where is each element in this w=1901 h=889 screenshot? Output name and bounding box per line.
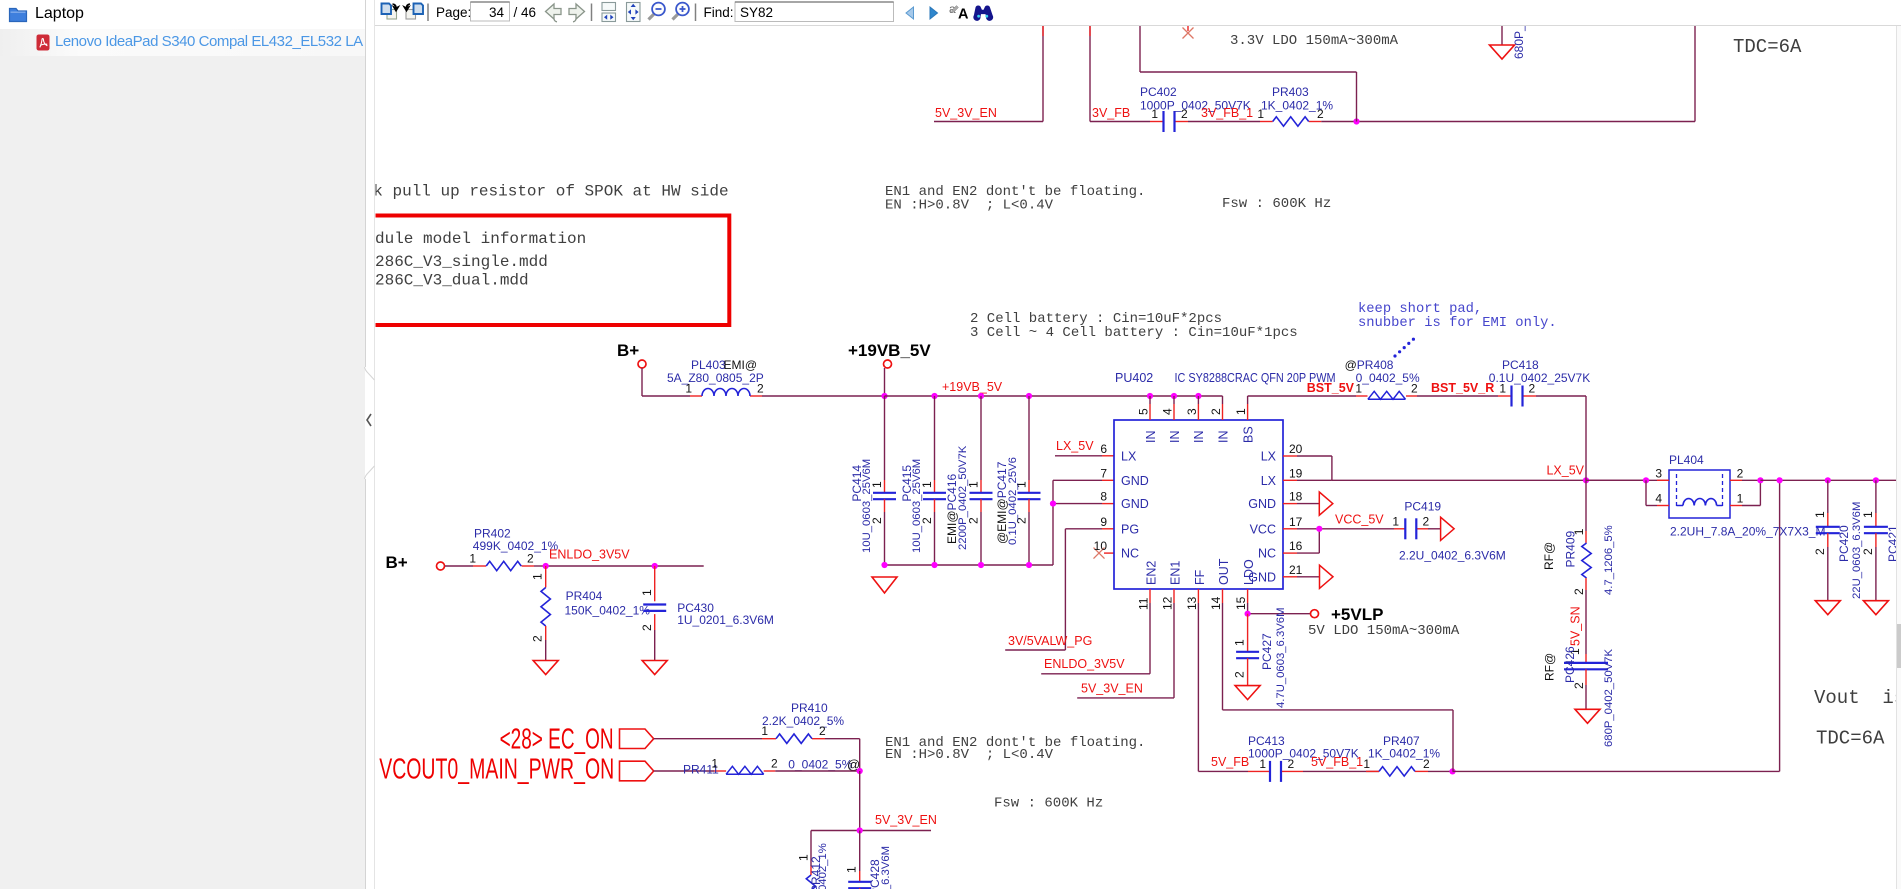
- svg-text:NC: NC: [1258, 547, 1276, 561]
- pin 12 EN1 (bottom): [1160, 561, 1182, 610]
- svg-text:2.2U_0402_6.3V6M: 2.2U_0402_6.3V6M: [1399, 549, 1506, 563]
- zoom out icon: [649, 3, 665, 20]
- node bus junction pin3: [1195, 393, 1201, 399]
- wire LX_5V to PL404: [1586, 479, 1669, 481]
- svg-text:1: 1: [1259, 757, 1266, 771]
- node GND pins junction: [1050, 501, 1056, 507]
- svg-text:1: 1: [685, 382, 692, 396]
- resistor PR409: [1542, 480, 1615, 595]
- svg-text:680P_0402_50V7K: 680P_0402_50V7K: [1512, 0, 1526, 59]
- svg-text:1: 1: [1499, 382, 1506, 396]
- svg-text:12: 12: [1160, 596, 1174, 610]
- svg-text:+19VB_5V: +19VB_5V: [848, 341, 931, 360]
- capacitor PC420: [1813, 480, 1863, 600]
- note Vout: [1814, 687, 1901, 709]
- svg-text:3 Cell ~ 4 Cell battery : Cin=: 3 Cell ~ 4 Cell battery : Cin=10uF*1pcs: [970, 325, 1298, 341]
- svg-text:4.7U_0603_6.3V6M: 4.7U_0603_6.3V6M: [1275, 608, 1287, 709]
- label 5V_3V_EN (pin12): [1081, 682, 1143, 696]
- svg-text:1: 1: [1737, 492, 1744, 506]
- svg-text:1: 1: [1363, 757, 1370, 771]
- svg-text:IN: IN: [1216, 431, 1230, 444]
- note EN1 EN2 floating (top): [885, 184, 1145, 214]
- pin 18 GND (right): [1248, 490, 1302, 512]
- svg-text:2: 2: [531, 635, 545, 642]
- note Fsw bottom: [994, 796, 1103, 812]
- power pin +5VLP: [1311, 605, 1384, 624]
- svg-text:RF@: RF@: [1542, 542, 1556, 570]
- svg-text:VCC: VCC: [1250, 522, 1276, 536]
- svg-text:1: 1: [1233, 639, 1247, 646]
- capacitor PC417: [995, 396, 1041, 565]
- icon open next doc: [404, 4, 423, 20]
- note cell battery Cin: [970, 311, 1298, 341]
- svg-text:3V/5VALW_PG: 3V/5VALW_PG: [1008, 634, 1092, 648]
- svg-text:5V_3V_EN: 5V_3V_EN: [1081, 682, 1143, 696]
- svg-text:IN: IN: [1168, 431, 1182, 444]
- svg-text:PR410: PR410: [791, 701, 828, 715]
- ground with 680P cap value (top): [1490, 0, 1527, 59]
- capacitor PC428: [845, 831, 893, 889]
- fwd page arrow: [569, 4, 585, 19]
- svg-text:2: 2: [1288, 757, 1295, 771]
- svg-text:+19VB_5V: +19VB_5V: [942, 380, 1003, 394]
- svg-text:2: 2: [1737, 467, 1744, 481]
- power pin +19VB_5V: [848, 341, 931, 396]
- svg-text:PC426: PC426: [1563, 646, 1577, 683]
- label VCOUT0_MAIN_PWR_ON: [379, 754, 614, 786]
- node divider junction PR404: [543, 563, 549, 569]
- svg-text:check pull up resistor of SPOK: check pull up resistor of SPOK at HW sid…: [335, 183, 729, 201]
- svg-text:8: 8: [1100, 490, 1107, 504]
- svg-text:PL403: PL403: [691, 358, 726, 372]
- svg-text:1: 1: [845, 866, 859, 873]
- ground PC427: [1235, 686, 1260, 700]
- label 5V_FB_1: [1311, 755, 1363, 769]
- svg-text:20: 20: [1289, 442, 1303, 456]
- note TDC=6A top: [1733, 36, 1802, 58]
- ground input caps: [872, 577, 897, 593]
- label +19VB_5V net: [942, 380, 1003, 394]
- svg-text:<28> EC_ON: <28> EC_ON: [500, 724, 614, 756]
- svg-text:13: 13: [1185, 596, 1199, 610]
- svg-text:1: 1: [711, 757, 718, 771]
- node gnd bus junction PC417: [1026, 562, 1032, 568]
- svg-text:B+: B+: [617, 341, 639, 360]
- fit width icon: [602, 3, 616, 22]
- svg-text:OUT: OUT: [1217, 558, 1231, 585]
- capacitor PC402: [1140, 85, 1251, 132]
- capacitor PC430: [640, 566, 774, 661]
- icon open prev doc: [382, 4, 399, 20]
- svg-text:NC: NC: [1121, 547, 1139, 561]
- svg-text:PG: PG: [1121, 522, 1139, 536]
- ground PC420: [1815, 601, 1840, 615]
- svg-text:1: 1: [1355, 382, 1362, 396]
- node LX_5V junction: [1583, 477, 1589, 483]
- svg-text:680P_0402_50V7K: 680P_0402_50V7K: [1603, 649, 1615, 747]
- op-amp U PU402 IC SY8288CRAC: [1114, 371, 1336, 589]
- wire 3V_FB net: [1090, 26, 1150, 122]
- wire inductor to +19VB_5V node: [762, 395, 885, 397]
- svg-text:1: 1: [1813, 511, 1827, 518]
- svg-text:SY8286C_V3_single.mdd: SY8286C_V3_single.mdd: [346, 253, 548, 271]
- svg-text:4: 4: [1655, 492, 1662, 506]
- note Fsw top: [1222, 196, 1331, 212]
- svg-text:18: 18: [1289, 490, 1303, 504]
- svg-text:PR409: PR409: [1564, 530, 1578, 567]
- node output junction PC420: [1825, 477, 1831, 483]
- svg-text:2: 2: [771, 757, 778, 771]
- capacitor PC419: [1392, 500, 1505, 563]
- svg-text:snubber is for EMI only.: snubber is for EMI only.: [1358, 315, 1557, 331]
- pin 10 NC (left): [1094, 539, 1139, 561]
- svg-text:LX_5V: LX_5V: [1546, 464, 1584, 478]
- label ENLDO_3V5V (pin11): [1044, 657, 1125, 671]
- svg-text:GND: GND: [1121, 474, 1149, 488]
- wire BS pin to PR408: [1248, 395, 1356, 397]
- svg-text:Fsw : 600K Hz: Fsw : 600K Hz: [994, 796, 1103, 812]
- svg-text:LX: LX: [1261, 474, 1277, 488]
- no-connect X pin10: [1094, 548, 1115, 559]
- note TDC=6A bottom: [1816, 728, 1885, 750]
- svg-text:PR403: PR403: [1272, 85, 1309, 99]
- svg-text:ENLDO_3V5V: ENLDO_3V5V: [1044, 657, 1125, 671]
- svg-text:+5VLP: +5VLP: [1331, 605, 1383, 624]
- pin 19 LX (right): [1261, 466, 1303, 488]
- wire OUT net: [1223, 603, 1454, 771]
- svg-text:module model information: module model information: [356, 230, 586, 248]
- ground arrow pin18: [1297, 492, 1333, 515]
- svg-text:GND: GND: [1248, 497, 1276, 511]
- node gnd bus junction PC414: [881, 562, 887, 568]
- svg-text:LDO: LDO: [1242, 559, 1256, 585]
- svg-text:EMI@: EMI@: [724, 358, 758, 372]
- svg-text:IN: IN: [1144, 431, 1158, 444]
- svg-text:3: 3: [1185, 408, 1199, 415]
- svg-text:2: 2: [1233, 671, 1247, 678]
- svg-text:EN :H>0.8V ; L<0.4V: EN :H>0.8V ; L<0.4V: [885, 747, 1054, 763]
- svg-text:2: 2: [1423, 757, 1430, 771]
- node EC/VCOUT junction: [857, 768, 863, 774]
- folder icon: [8, 5, 30, 25]
- capacitor PC415: [900, 396, 946, 565]
- wire PL404 outputs: [1730, 480, 1760, 505]
- svg-text:21: 21: [1289, 563, 1303, 577]
- label BST_5V: [1307, 381, 1355, 395]
- node bus junction at PC417: [1026, 393, 1032, 399]
- svg-text:PC419: PC419: [1404, 500, 1441, 514]
- svg-text:15: 15: [1234, 596, 1248, 610]
- svg-text:19: 19: [1289, 466, 1303, 480]
- capacitor PC426: [1543, 590, 1616, 747]
- svg-text:BST_5V_R: BST_5V_R: [1431, 381, 1494, 395]
- node VCC junction: [1316, 526, 1322, 532]
- node 3V_FB_1 junction: [1353, 118, 1359, 124]
- svg-text:5V LDO 150mA~300mA: 5V LDO 150mA~300mA: [1308, 623, 1460, 639]
- svg-text:5V_3V_EN: 5V_3V_EN: [875, 813, 937, 827]
- ground arrow pin21: [1297, 565, 1333, 588]
- svg-text:2: 2: [527, 552, 534, 566]
- wire EN2 ENLDO_3V5V: [1041, 603, 1150, 674]
- svg-text:5: 5: [1137, 408, 1151, 415]
- note 5V LDO: [1308, 623, 1460, 639]
- node divider junction PC430: [652, 563, 658, 569]
- node bus junction at PC416: [978, 393, 984, 399]
- wire EC_ON corner: [825, 739, 860, 771]
- toolbar: [375, 0, 1901, 26]
- svg-text:2: 2: [1181, 107, 1188, 121]
- no-connect X (top): [1183, 26, 1194, 39]
- svg-text:BS: BS: [1241, 426, 1255, 443]
- inductor PL403: [667, 358, 764, 396]
- svg-text:2200P_0402_50V7K: 2200P_0402_50V7K: [957, 445, 969, 550]
- find previous: [906, 7, 914, 19]
- svg-text:0.1U_0402_25V6: 0.1U_0402_25V6: [1007, 457, 1019, 545]
- label ENLDO_3V5V (divider): [549, 548, 630, 562]
- node bus junction pin4: [1171, 393, 1177, 399]
- svg-text:TDC=6A: TDC=6A: [1733, 36, 1802, 58]
- svg-text:GND: GND: [1121, 497, 1149, 511]
- wire LDO pin15: [1248, 603, 1311, 614]
- svg-text:0_0402_5%: 0_0402_5%: [788, 757, 852, 771]
- pin 8 GND (left): [1100, 490, 1148, 512]
- node bus junction pin5: [1147, 393, 1153, 399]
- resistor PR408 (0 ohm): [1345, 358, 1420, 399]
- svg-text:16: 16: [1289, 539, 1303, 553]
- svg-text:5V_FB: 5V_FB: [1211, 755, 1249, 769]
- note 3.3V LDO: [1230, 33, 1399, 49]
- pin 7 GND (left): [1100, 466, 1148, 488]
- wire 5V_FB_1: [1303, 770, 1379, 772]
- label 5V_SN: [1569, 606, 1583, 646]
- svg-text:1: 1: [1151, 107, 1158, 121]
- capacitor PC413: [1248, 734, 1359, 782]
- node 5V_FB_1 junction: [1449, 768, 1455, 774]
- svg-text:10: 10: [1094, 539, 1108, 553]
- svg-text:4.7_1206_5%: 4.7_1206_5%: [1603, 525, 1615, 595]
- pin 15 LDO (bottom): [1234, 559, 1256, 610]
- svg-text:6: 6: [1100, 442, 1107, 456]
- svg-text:2: 2: [1209, 408, 1223, 415]
- red annotation box module model information: [346, 216, 729, 326]
- pin 5 IN (top): [1137, 396, 1158, 443]
- node gnd bus junction PC416: [978, 562, 984, 568]
- wire to 5V_3V_EN: [859, 771, 861, 831]
- inductor PL404: [1646, 453, 1825, 539]
- note EN1 EN2 floating (bottom): [885, 735, 1145, 763]
- svg-text:0402_1%: 0402_1%: [817, 843, 829, 889]
- svg-text:150K_0402_1%: 150K_0402_1%: [565, 604, 651, 618]
- pin 1 BS (top): [1234, 396, 1255, 443]
- svg-text:EN1: EN1: [1169, 561, 1183, 585]
- pin 11 EN2 (bottom): [1136, 561, 1158, 610]
- svg-text:3.3V LDO 150mA~300mA: 3.3V LDO 150mA~300mA: [1230, 33, 1399, 49]
- label LX_5V (pin6): [1055, 439, 1114, 456]
- svg-text:5A_Z80_0805_2P: 5A_Z80_0805_2P: [667, 371, 764, 385]
- svg-text:PR404: PR404: [566, 589, 603, 603]
- wire LX_5V line: [1332, 479, 1646, 481]
- svg-text:2.2UH_7.8A_20%_7X7X3_M: 2.2UH_7.8A_20%_7X7X3_M: [1670, 525, 1825, 539]
- wire output rail: [1760, 479, 1897, 481]
- svg-text:1: 1: [761, 724, 768, 738]
- svg-text:FF: FF: [1193, 569, 1207, 585]
- back page arrow: [546, 4, 562, 19]
- svg-text:2.2K_0402_5%: 2.2K_0402_5%: [762, 714, 844, 728]
- connector EC_ON: [620, 729, 654, 749]
- svg-text:1: 1: [469, 552, 476, 566]
- pin 13 FF (bottom): [1185, 569, 1207, 610]
- svg-text:keep short pad,: keep short pad,: [1358, 301, 1482, 317]
- label LX_5V: [1546, 464, 1584, 478]
- svg-text:1: 1: [1234, 408, 1248, 415]
- wire ENLDO divider: [546, 565, 704, 567]
- wire +19VB_5V bus: [885, 395, 1223, 397]
- svg-text:2: 2: [1813, 548, 1827, 555]
- svg-text:11: 11: [1136, 597, 1150, 610]
- svg-text:VCOUT0_MAIN_PWR_ON: VCOUT0_MAIN_PWR_ON: [379, 754, 614, 786]
- resistor PR411 (0 ohm): [654, 757, 861, 777]
- pin 14 OUT (bottom): [1209, 558, 1231, 610]
- svg-text:1: 1: [531, 573, 545, 580]
- wire BST_5V_R: [1417, 395, 1498, 397]
- connector VCOUT0_MAIN_PWR_ON: [620, 761, 654, 781]
- svg-text:10U_0603_25V6M: 10U_0603_25V6M: [911, 459, 923, 553]
- find next: [930, 7, 938, 19]
- pin 2 IN (top): [1209, 396, 1230, 443]
- node output junction vert: [1777, 477, 1783, 483]
- label VCC_5V: [1335, 513, 1384, 527]
- label 3V/5VALW_PG: [1008, 634, 1092, 648]
- capacitor PC416: [945, 396, 993, 565]
- svg-text:1: 1: [1257, 107, 1264, 121]
- svg-text:2: 2: [1861, 548, 1875, 555]
- svg-text:PC427: PC427: [1260, 633, 1274, 670]
- node +5VLP junction: [1245, 611, 1251, 617]
- power pin B+ (top): [617, 341, 646, 368]
- svg-text:2: 2: [640, 624, 654, 631]
- svg-text:7: 7: [1100, 466, 1107, 480]
- svg-text:10U_0603_25V6M: 10U_0603_25V6M: [861, 459, 873, 553]
- wire 3V_FB_1 to top: [1321, 26, 1695, 122]
- wire 5V_3V_EN net (top): [934, 26, 1043, 122]
- pin 20 LX (right): [1261, 442, 1303, 464]
- svg-text:3V_FB_1: 3V_FB_1: [1201, 106, 1253, 120]
- svg-text:SY8286C_V3_dual.mdd: SY8286C_V3_dual.mdd: [346, 272, 528, 290]
- svg-text:9: 9: [1100, 515, 1107, 529]
- svg-text:4: 4: [1161, 408, 1175, 415]
- svg-text:Fsw : 600K Hz: Fsw : 600K Hz: [1222, 196, 1331, 212]
- wire EN1 5V_3V_EN: [1077, 603, 1174, 698]
- label 5V_3V_EN (top): [935, 106, 997, 120]
- node gnd bus junction PC415: [931, 562, 937, 568]
- svg-text:EN2: EN2: [1145, 561, 1159, 585]
- svg-text:2: 2: [819, 724, 826, 738]
- node PL404 output junction: [1757, 477, 1763, 483]
- wire LX pins 20/19 join: [1297, 456, 1332, 480]
- svg-text:1U_0201_6.3V6M: 1U_0201_6.3V6M: [677, 613, 774, 627]
- binoculars icon: [973, 5, 993, 20]
- ground PC426: [1575, 709, 1600, 723]
- svg-text:PU402: PU402: [1115, 371, 1153, 385]
- fit page icon: [627, 3, 641, 22]
- svg-text:2: 2: [1423, 514, 1430, 528]
- svg-text:2: 2: [1529, 382, 1536, 396]
- svg-text:TDC=6A: TDC=6A: [1816, 728, 1885, 750]
- label EC_ON: [500, 724, 614, 756]
- svg-text:PC418: PC418: [1502, 358, 1539, 372]
- svg-text:2: 2: [1317, 107, 1324, 121]
- pin 21 GND (right): [1248, 563, 1302, 585]
- svg-text:2: 2: [1411, 382, 1418, 396]
- pin 17 VCC (right): [1250, 515, 1303, 537]
- svg-text:LX: LX: [1261, 450, 1277, 464]
- wire L-shape from top to junction: [1140, 26, 1357, 122]
- wire EC_ON: [654, 738, 762, 740]
- svg-text:5V_FB_1: 5V_FB_1: [1311, 755, 1363, 769]
- wire 3V_FB_1 segment: [1188, 121, 1260, 123]
- svg-text:IN: IN: [1192, 431, 1206, 444]
- label 5V_3V_EN (bottom): [875, 813, 937, 827]
- node bus junction at PC415: [931, 393, 937, 399]
- svg-text:2: 2: [757, 382, 764, 396]
- ground PC421: [1863, 601, 1888, 615]
- splitter: [365, 0, 366, 367]
- svg-text:5V_SN: 5V_SN: [1569, 606, 1583, 646]
- ground PR404: [533, 661, 558, 675]
- svg-text:B+: B+: [386, 553, 408, 572]
- zoom in icon: [673, 3, 689, 20]
- label BST_5V_R: [1431, 381, 1494, 395]
- resistor PR404: [531, 566, 651, 661]
- wire FF 5V_FB: [1198, 603, 1248, 771]
- svg-text:@PR408: @PR408: [1345, 358, 1394, 372]
- label 3V_FB: [1092, 106, 1130, 120]
- svg-text:1: 1: [640, 589, 654, 596]
- svg-text:3: 3: [1655, 467, 1662, 481]
- svg-text:PC420: PC420: [1837, 525, 1851, 562]
- pdf icon: [36, 34, 50, 51]
- wire input caps ground bus: [885, 480, 1115, 565]
- svg-text:1U_0603_6.3V6M: 1U_0603_6.3V6M: [880, 846, 892, 889]
- pin 9 PG (left): [1100, 515, 1139, 537]
- svg-text:ENLDO_3V5V: ENLDO_3V5V: [549, 548, 630, 562]
- svg-text:3V_FB: 3V_FB: [1092, 106, 1130, 120]
- svg-text:VCC_5V: VCC_5V: [1335, 513, 1384, 527]
- power pin B+ (lower): [386, 553, 445, 572]
- node 5V_3V_EN junction: [857, 827, 863, 833]
- svg-text:14: 14: [1209, 596, 1223, 610]
- pin 6 LX (left): [1100, 442, 1137, 464]
- power arrow VCC_5V: [1441, 517, 1455, 540]
- dotted leader line: [1393, 338, 1415, 358]
- resistor PR407: [1363, 734, 1452, 776]
- label 5V_FB: [1211, 755, 1249, 769]
- svg-text:Vout is: Vout is: [1814, 687, 1901, 709]
- svg-text:5V_3V_EN: 5V_3V_EN: [935, 106, 997, 120]
- svg-text:2: 2: [1572, 588, 1586, 595]
- resistor PR412: [797, 831, 830, 889]
- svg-text:PL404: PL404: [1669, 453, 1704, 467]
- svg-text:EN :H>0.8V ; L<0.4V: EN :H>0.8V ; L<0.4V: [885, 198, 1054, 214]
- wire B+ to inductor: [642, 368, 690, 396]
- wire PG net: [1005, 529, 1114, 650]
- resistor PR402: [445, 527, 559, 571]
- node output junction PC421: [1873, 477, 1879, 483]
- svg-text:PC402: PC402: [1140, 85, 1177, 99]
- node bus junction at PC414: [881, 393, 887, 399]
- capacitor PC427: [1233, 608, 1288, 709]
- node PL404 input junction: [1643, 477, 1649, 483]
